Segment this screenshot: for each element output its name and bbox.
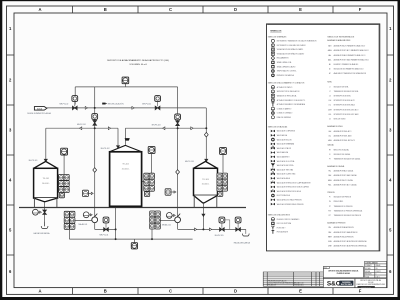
wire <box>229 220 231 230</box>
svg-text:DESDE SUMINISTRO AGUA: DESDE SUMINISTRO AGUA <box>27 112 51 115</box>
svg-text:10.000 L: 10.000 L <box>202 184 211 186</box>
svg-text:TK-101: TK-101 <box>43 178 50 180</box>
instrument LT-102 <box>165 189 171 195</box>
svg-text:LSHH: LSHH <box>328 109 332 111</box>
legend row PI <box>329 196 351 199</box>
control valve MH-PV-101 <box>92 114 98 126</box>
arrow <box>174 191 176 193</box>
legend row PT <box>329 205 353 208</box>
wire <box>125 127 206 129</box>
legend row PAHH <box>328 235 354 238</box>
svg-text:TK-103: TK-103 <box>202 179 209 181</box>
instrument box LI-101 <box>61 148 68 155</box>
svg-text:DEPOSITO DE ALMACENAMIENTO DE: DEPOSITO DE ALMACENAMIENTO DE AGUA PRODU… <box>107 59 169 62</box>
svg-text:LSH: LSH <box>328 100 331 102</box>
title block revision table <box>263 272 323 286</box>
legend row <box>271 189 301 193</box>
legend row <box>272 230 288 233</box>
control valve MH-PV-100 <box>72 96 78 110</box>
legend row <box>271 186 309 189</box>
manual valve HV-102 <box>175 214 181 223</box>
wire <box>88 192 91 194</box>
legend row LI <box>329 85 349 88</box>
wire <box>151 154 153 173</box>
flow arrow <box>85 107 87 110</box>
arrow <box>90 214 92 216</box>
legend row <box>271 86 293 89</box>
legend row AALL <box>328 59 370 62</box>
wire <box>115 206 117 239</box>
legend row FAHH <box>328 179 353 182</box>
svg-text:PT: PT <box>329 206 331 208</box>
instrument box FI-100 <box>131 243 137 249</box>
legend row <box>271 90 299 93</box>
wire <box>117 128 119 146</box>
legend row <box>271 164 293 168</box>
svg-text:FILTRO EN Y: FILTRO EN Y <box>277 227 286 229</box>
title block logo S&O <box>323 279 355 288</box>
svg-text:MH-PV-103: MH-PV-103 <box>152 124 161 126</box>
legend row <box>271 146 291 150</box>
wire <box>205 108 207 161</box>
svg-text:S.61.046-MH-001: S.61.046-MH-001 <box>361 286 371 288</box>
wire <box>151 228 153 239</box>
tank TK-102 <box>110 145 142 206</box>
wire <box>124 84 126 87</box>
svg-text:HACIA DESCARGA: HACIA DESCARGA <box>34 232 51 235</box>
wire <box>46 127 118 129</box>
wire <box>177 120 179 217</box>
legend row PIT <box>329 214 361 217</box>
instrument AE-101 <box>83 212 89 218</box>
svg-text:INTERRUPTOR DE NIVEL: INTERRUPTOR DE NIVEL <box>334 96 352 98</box>
legend row LT <box>329 90 359 93</box>
check valve <box>93 168 97 173</box>
legend row FE <box>329 149 349 152</box>
flow arrow <box>195 228 197 231</box>
wire <box>171 191 174 193</box>
legend row <box>271 156 291 159</box>
svg-text:RECIRCULACIÓN: RECIRCULACIÓN <box>108 103 124 106</box>
svg-text:B: B <box>104 289 107 294</box>
legend row <box>271 44 306 47</box>
check valve <box>176 170 180 175</box>
svg-text:D: D <box>234 7 237 12</box>
legend row PDT <box>328 209 362 212</box>
legend row AAL <box>328 54 366 57</box>
wire <box>177 87 179 114</box>
instrument box LI-102 <box>148 147 155 154</box>
legend row <box>271 194 290 198</box>
svg-text:LSLL: LSLL <box>328 114 332 116</box>
drawing title note <box>107 59 169 66</box>
wire <box>74 220 92 222</box>
border grid numbers left/right <box>9 26 392 274</box>
wire <box>216 181 219 183</box>
svg-text:MH-PV-105: MH-PV-105 <box>215 235 224 237</box>
legend row AAH <box>328 45 366 48</box>
legend row FAL <box>329 170 354 173</box>
legend row <box>271 116 290 119</box>
legend row <box>271 172 296 176</box>
svg-text:LS: LS <box>329 96 331 98</box>
svg-text:C: C <box>169 289 172 294</box>
legend row <box>271 168 293 172</box>
wire <box>89 214 90 216</box>
tank TK-103 <box>194 161 218 207</box>
svg-text:MH-TK-101: MH-TK-101 <box>29 160 38 162</box>
wire <box>44 201 46 226</box>
legend row FAH <box>328 174 357 177</box>
svg-text:HACIA DESCARGA: HACIA DESCARGA <box>234 242 251 245</box>
svg-text:E: E <box>299 289 302 294</box>
svg-text:MH-PV-102: MH-PV-102 <box>142 104 151 106</box>
legend row <box>271 151 288 154</box>
legend row LSLL <box>328 113 359 116</box>
wire <box>94 120 96 218</box>
legend row <box>271 98 306 101</box>
svg-text:FE: FE <box>329 150 331 152</box>
instrument box LI-103 <box>220 148 227 155</box>
legend row <box>271 203 304 206</box>
outlet arrow TK-103 <box>202 214 205 217</box>
legend row AAHH <box>328 49 370 52</box>
wire <box>47 107 206 109</box>
drain funnel FD-101 <box>41 222 48 229</box>
legend row LSL <box>329 104 356 107</box>
svg-text:LSL: LSL <box>329 105 332 107</box>
svg-text:REVISION: REVISION <box>365 274 371 276</box>
control valve MH-PV-105 <box>219 217 225 231</box>
legend row <box>271 130 295 133</box>
legend row <box>271 69 297 73</box>
svg-text:PRESION: PRESION <box>327 192 335 194</box>
title block drawing info <box>355 279 387 288</box>
wire <box>63 155 65 174</box>
wire <box>202 203 204 229</box>
legend row <box>271 94 296 97</box>
svg-text:MH-AE-102: MH-AE-102 <box>162 224 171 227</box>
legend row LAHH <box>328 139 356 142</box>
legend row <box>271 177 290 180</box>
legend row AI <box>329 68 364 71</box>
svg-text:MH-PV-101: MH-PV-101 <box>77 124 86 126</box>
wire <box>58 181 59 183</box>
instrument cluster K2 <box>144 173 155 196</box>
svg-text:VOLUMEN: 40 m3: VOLUMEN: 40 m3 <box>129 64 147 66</box>
svg-text:FT: FT <box>329 159 331 161</box>
wire <box>69 238 192 240</box>
svg-text:LT: LT <box>329 91 331 93</box>
legend row JPAH <box>328 245 367 248</box>
legend row <box>271 48 304 51</box>
legend row FT <box>329 158 361 161</box>
instrument AE-102 <box>166 213 172 219</box>
legend row LS <box>329 96 351 98</box>
legend row <box>271 65 296 68</box>
legend row <box>271 111 293 115</box>
svg-text:PIT: PIT <box>329 215 331 217</box>
legend row LSH <box>328 99 355 102</box>
feed arrow TK-101 <box>44 159 47 162</box>
arrow <box>91 192 93 194</box>
instrument WT-101 <box>33 209 39 215</box>
legend row PAH <box>328 231 357 234</box>
instrument cluster K5 <box>150 211 161 229</box>
legend row FALL <box>328 183 357 186</box>
svg-text:B: B <box>104 7 107 12</box>
control valve MH-PV-103 <box>175 114 181 126</box>
legend row <box>271 56 289 60</box>
svg-text:A: A <box>38 7 41 12</box>
legend row <box>271 218 300 221</box>
flow arrow <box>80 127 82 130</box>
wire <box>94 223 96 230</box>
drain funnel FD-102 <box>242 229 249 236</box>
wire <box>38 211 39 213</box>
control valve MH-PV-102 <box>155 96 161 110</box>
svg-text:N.13: N.13 <box>324 267 327 269</box>
legend row <box>271 107 292 110</box>
legend row <box>271 138 292 142</box>
wire <box>94 87 96 114</box>
legend row <box>271 160 294 163</box>
legend row LAH <box>328 130 352 133</box>
feed arrow TK-103 <box>205 159 208 162</box>
wire <box>160 220 175 222</box>
legend row LG <box>329 119 346 121</box>
legend row <box>271 222 291 225</box>
svg-text:SIMBOLOS: SIMBOLOS <box>270 30 282 32</box>
svg-text:D: D <box>234 289 237 294</box>
legend row <box>271 74 294 78</box>
legend row PS <box>329 200 344 203</box>
title block control emision table <box>365 261 387 278</box>
legend row <box>271 143 294 146</box>
net label RECIRCULACION <box>102 103 105 105</box>
ground line <box>19 207 246 209</box>
svg-text:MH-AE-101: MH-AE-101 <box>79 223 88 226</box>
instrument LT-101 <box>83 190 89 196</box>
svg-text:NIVEL DE VIDRIO: NIVEL DE VIDRIO <box>334 119 347 121</box>
wire <box>177 223 179 230</box>
svg-text:TK-102: TK-102 <box>122 164 129 166</box>
wire <box>68 229 70 239</box>
svg-text:NIVEL: NIVEL <box>327 82 332 84</box>
svg-text:1 DE 1: 1 DE 1 <box>376 276 380 278</box>
svg-text:F: F <box>359 289 362 294</box>
wire <box>142 181 144 183</box>
svg-text:C: C <box>169 7 172 12</box>
instrument cluster K3 <box>217 173 228 196</box>
valve TK-101 outlet <box>43 210 47 214</box>
instrument cluster K1 <box>59 175 70 198</box>
control valve MH-PV-104 <box>103 217 109 231</box>
wire <box>225 219 230 221</box>
svg-text:S/E: S/E <box>376 268 378 270</box>
instrument cluster K4 <box>64 211 75 229</box>
legend box <box>267 24 380 251</box>
wire <box>172 214 173 216</box>
legend row <box>271 134 287 137</box>
legend row <box>271 61 292 64</box>
svg-text:CONTROL EMISION: CONTROL EMISION <box>365 262 377 264</box>
wire <box>124 128 126 145</box>
svg-text:10.000 L: 10.000 L <box>42 183 51 185</box>
svg-text:MH-TK-102: MH-TK-102 <box>101 148 110 150</box>
legend row FI <box>329 153 350 156</box>
junction <box>115 228 117 230</box>
manual valve HV-101 <box>92 214 98 223</box>
legend row <box>271 199 302 202</box>
junction <box>94 107 96 109</box>
wire <box>95 228 116 230</box>
svg-text:S&O: S&O <box>327 281 341 288</box>
wire <box>74 87 76 105</box>
wire <box>45 128 47 161</box>
arrow <box>40 211 42 213</box>
legend row <box>271 52 305 55</box>
wire <box>75 86 177 88</box>
arrow <box>174 214 176 216</box>
instrument box XI-100 <box>122 77 129 84</box>
legend row LSHH <box>328 108 359 111</box>
svg-text:PDT: PDT <box>328 210 331 212</box>
title block project box <box>323 267 363 278</box>
legend row <box>272 103 305 106</box>
svg-text:PS: PS <box>329 201 331 203</box>
legend row PAL <box>328 226 353 229</box>
wire <box>222 155 224 173</box>
legend row LPAH <box>328 240 367 243</box>
svg-text:MH-TK-103: MH-TK-103 <box>185 161 194 163</box>
svg-text:F: F <box>359 7 362 12</box>
vent mark TK-102 <box>125 138 130 141</box>
legend row <box>271 226 285 230</box>
svg-text:E: E <box>299 7 302 12</box>
off-page connector: desde suministro agua <box>34 107 47 111</box>
svg-text:21/03/22: 21/03/22 <box>376 271 381 273</box>
svg-text:A: A <box>38 289 41 294</box>
border grid letters top/bottom <box>38 7 361 294</box>
wire <box>133 239 135 243</box>
svg-text:MH-PV-104: MH-PV-104 <box>100 234 109 236</box>
svg-text:S.61.046: S.61.046 <box>368 282 373 284</box>
svg-text:MH-PV-100: MH-PV-100 <box>60 104 69 106</box>
legend row LAL <box>329 135 353 138</box>
legend row AT <box>329 72 366 75</box>
tank TK-101 <box>34 161 58 207</box>
legend row <box>271 39 316 42</box>
svg-text:25.000 L: 25.000 L <box>122 168 131 170</box>
legend row <box>271 181 311 185</box>
control valve MH-PV-106 <box>235 217 241 231</box>
wire <box>178 228 246 230</box>
legend row AE <box>329 63 358 66</box>
feed arrow TK-102 <box>116 146 119 149</box>
check valve <box>204 132 208 137</box>
